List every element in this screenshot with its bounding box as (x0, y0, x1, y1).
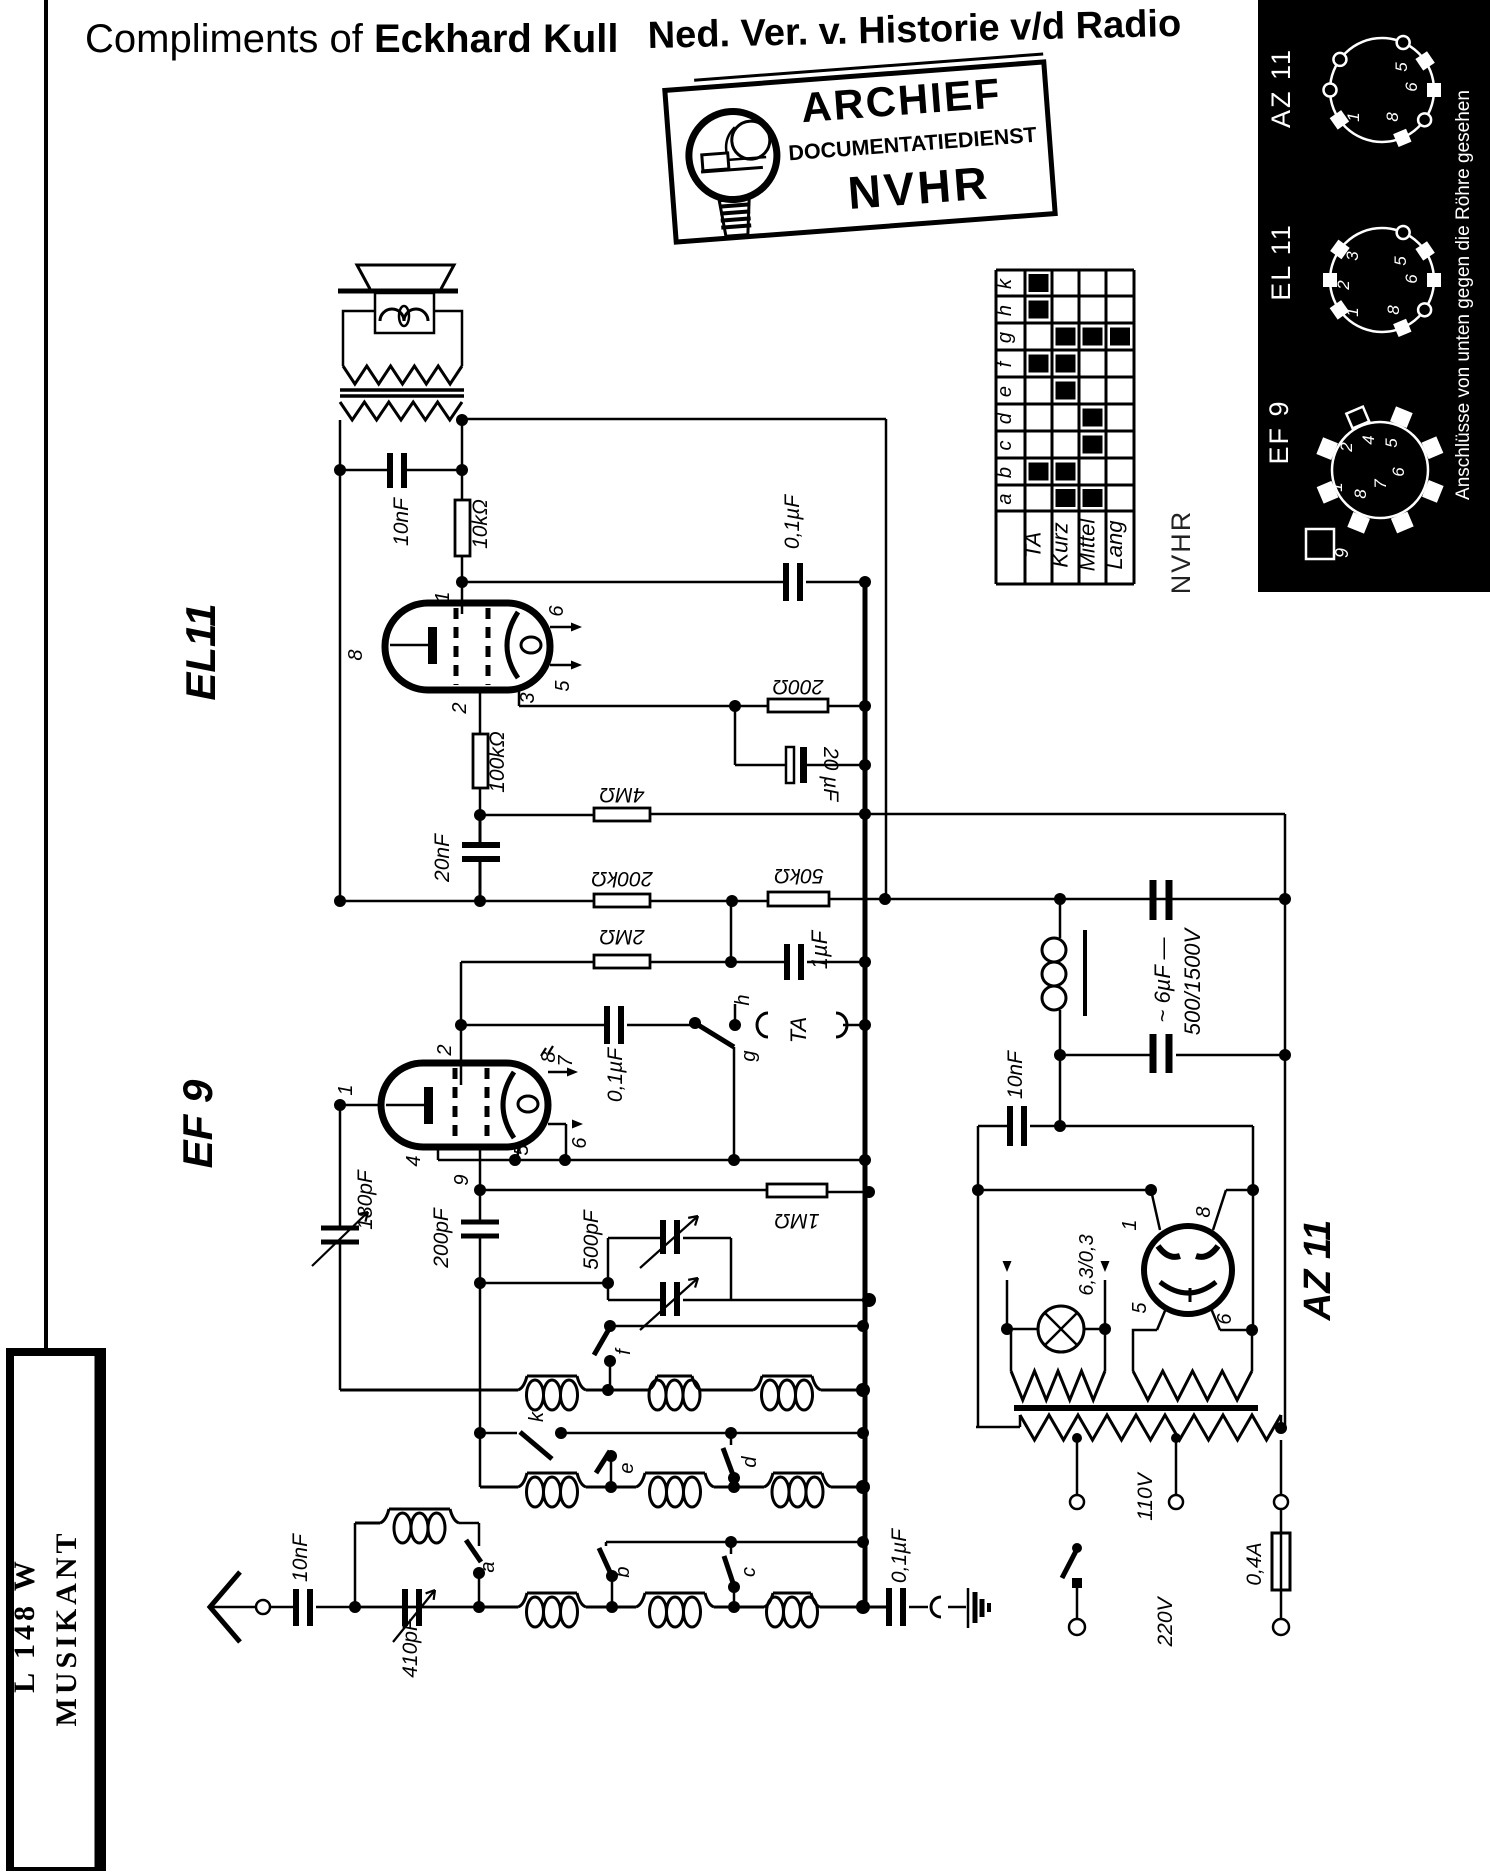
svg-text:410pF: 410pF (399, 1617, 422, 1678)
svg-text:EF 9: EF 9 (174, 1079, 221, 1168)
svg-text:6: 6 (1389, 467, 1408, 477)
svg-text:5: 5 (1129, 1302, 1151, 1314)
svg-text:h: h (732, 994, 754, 1005)
svg-text:0,1µF: 0,1µF (781, 494, 804, 549)
svg-text:180pF: 180pF (354, 1169, 377, 1230)
svg-text:1µF: 1µF (807, 929, 832, 969)
svg-text:TA: TA (1021, 532, 1046, 558)
svg-text:6: 6 (1402, 82, 1421, 92)
svg-text:AZ 11: AZ 11 (1297, 1220, 1339, 1322)
svg-text:5: 5 (1391, 256, 1410, 266)
svg-text:1: 1 (1327, 482, 1346, 491)
svg-text:220V: 220V (1154, 1595, 1177, 1647)
svg-text:EF 9: EF 9 (1264, 399, 1294, 464)
svg-text:e: e (994, 386, 1016, 397)
svg-text:8: 8 (1383, 112, 1402, 122)
svg-text:AZ 11: AZ 11 (1266, 48, 1296, 128)
svg-text:k: k (994, 278, 1016, 289)
svg-text:L 148 W: L 148 W (8, 1557, 41, 1693)
svg-text:~ 6µF —: ~ 6µF — (1150, 936, 1175, 1022)
svg-text:1: 1 (432, 591, 454, 602)
svg-text:d: d (739, 1456, 761, 1468)
svg-text:0,4A: 0,4A (1243, 1542, 1266, 1585)
svg-text:100kΩ: 100kΩ (486, 731, 509, 793)
svg-text:c: c (994, 441, 1016, 451)
svg-text:8: 8 (1193, 1206, 1215, 1217)
svg-text:110V: 110V (1134, 1471, 1157, 1520)
svg-text:d: d (994, 412, 1016, 424)
svg-text:MUSIKANT: MUSIKANT (50, 1529, 83, 1726)
svg-text:6: 6 (569, 1137, 591, 1149)
svg-text:1: 1 (335, 1084, 357, 1095)
svg-text:NVHR: NVHR (1166, 510, 1196, 595)
svg-text:8: 8 (1384, 305, 1403, 315)
svg-text:20nF: 20nF (431, 833, 454, 883)
svg-text:Anschlüsse von unten gegen die: Anschlüsse von unten gegen die Röhre ges… (1453, 90, 1474, 500)
svg-text:500pF: 500pF (580, 1209, 603, 1270)
svg-text:Lang: Lang (1102, 520, 1127, 570)
svg-text:2: 2 (434, 1044, 456, 1056)
svg-text:a: a (477, 1561, 499, 1572)
svg-text:10kΩ: 10kΩ (469, 499, 492, 549)
svg-text:4MΩ: 4MΩ (599, 783, 644, 806)
svg-text:NVHR: NVHR (846, 156, 992, 219)
svg-text:10nF: 10nF (390, 497, 413, 546)
svg-text:50kΩ: 50kΩ (774, 864, 824, 887)
svg-text:b: b (612, 1566, 634, 1577)
svg-text:1MΩ: 1MΩ (774, 1209, 819, 1232)
svg-text:0,1µF: 0,1µF (604, 1047, 627, 1102)
svg-text:6: 6 (546, 605, 568, 617)
svg-text:5: 5 (552, 680, 574, 692)
svg-text:1: 1 (1344, 112, 1363, 121)
svg-text:8: 8 (1351, 489, 1370, 499)
svg-text:Kurz: Kurz (1048, 522, 1073, 567)
svg-text:1: 1 (1119, 1219, 1141, 1230)
svg-text:5: 5 (1382, 438, 1401, 448)
svg-text:9: 9 (451, 1174, 473, 1185)
svg-text:5: 5 (1392, 62, 1411, 72)
svg-text:20 µF: 20 µF (819, 746, 842, 802)
svg-text:4: 4 (1359, 435, 1378, 444)
svg-text:2: 2 (1334, 280, 1353, 291)
svg-text:Compliments of Eckhard Kull: Compliments of Eckhard Kull (85, 17, 619, 61)
svg-text:7: 7 (1371, 479, 1390, 489)
svg-text:g: g (994, 332, 1016, 343)
svg-text:b: b (994, 467, 1016, 478)
svg-text:0,1µF: 0,1µF (888, 1528, 911, 1583)
svg-text:7: 7 (555, 1055, 577, 1067)
svg-text:c: c (738, 1567, 760, 1577)
svg-text:2: 2 (449, 702, 471, 714)
svg-text:Mittel: Mittel (1075, 518, 1100, 572)
svg-text:200kΩ: 200kΩ (591, 867, 654, 890)
svg-text:500/1500V: 500/1500V (1180, 926, 1205, 1035)
svg-text:6,3/0,3: 6,3/0,3 (1076, 1234, 1098, 1295)
svg-text:4: 4 (403, 1155, 425, 1166)
svg-text:1: 1 (1343, 307, 1362, 316)
svg-text:h: h (994, 305, 1016, 316)
svg-text:10nF: 10nF (1004, 1050, 1027, 1099)
svg-text:3: 3 (1343, 251, 1362, 261)
svg-text:6: 6 (1402, 274, 1421, 284)
svg-text:3: 3 (517, 692, 539, 703)
svg-text:g: g (738, 1050, 760, 1061)
svg-text:5: 5 (511, 1144, 533, 1156)
svg-text:200pF: 200pF (430, 1207, 453, 1269)
svg-text:2: 2 (1337, 442, 1356, 453)
svg-text:9: 9 (1332, 548, 1352, 558)
svg-text:200Ω: 200Ω (772, 675, 824, 698)
svg-text:e: e (616, 1462, 638, 1473)
svg-text:2MΩ: 2MΩ (599, 925, 645, 948)
svg-text:k: k (526, 1411, 548, 1422)
svg-text:8: 8 (345, 649, 367, 660)
svg-text:a: a (994, 493, 1016, 504)
svg-text:10nF: 10nF (289, 1533, 312, 1582)
svg-text:TA: TA (786, 1017, 811, 1043)
svg-text:EL11: EL11 (177, 603, 224, 700)
svg-text:EL 11: EL 11 (1266, 223, 1296, 301)
